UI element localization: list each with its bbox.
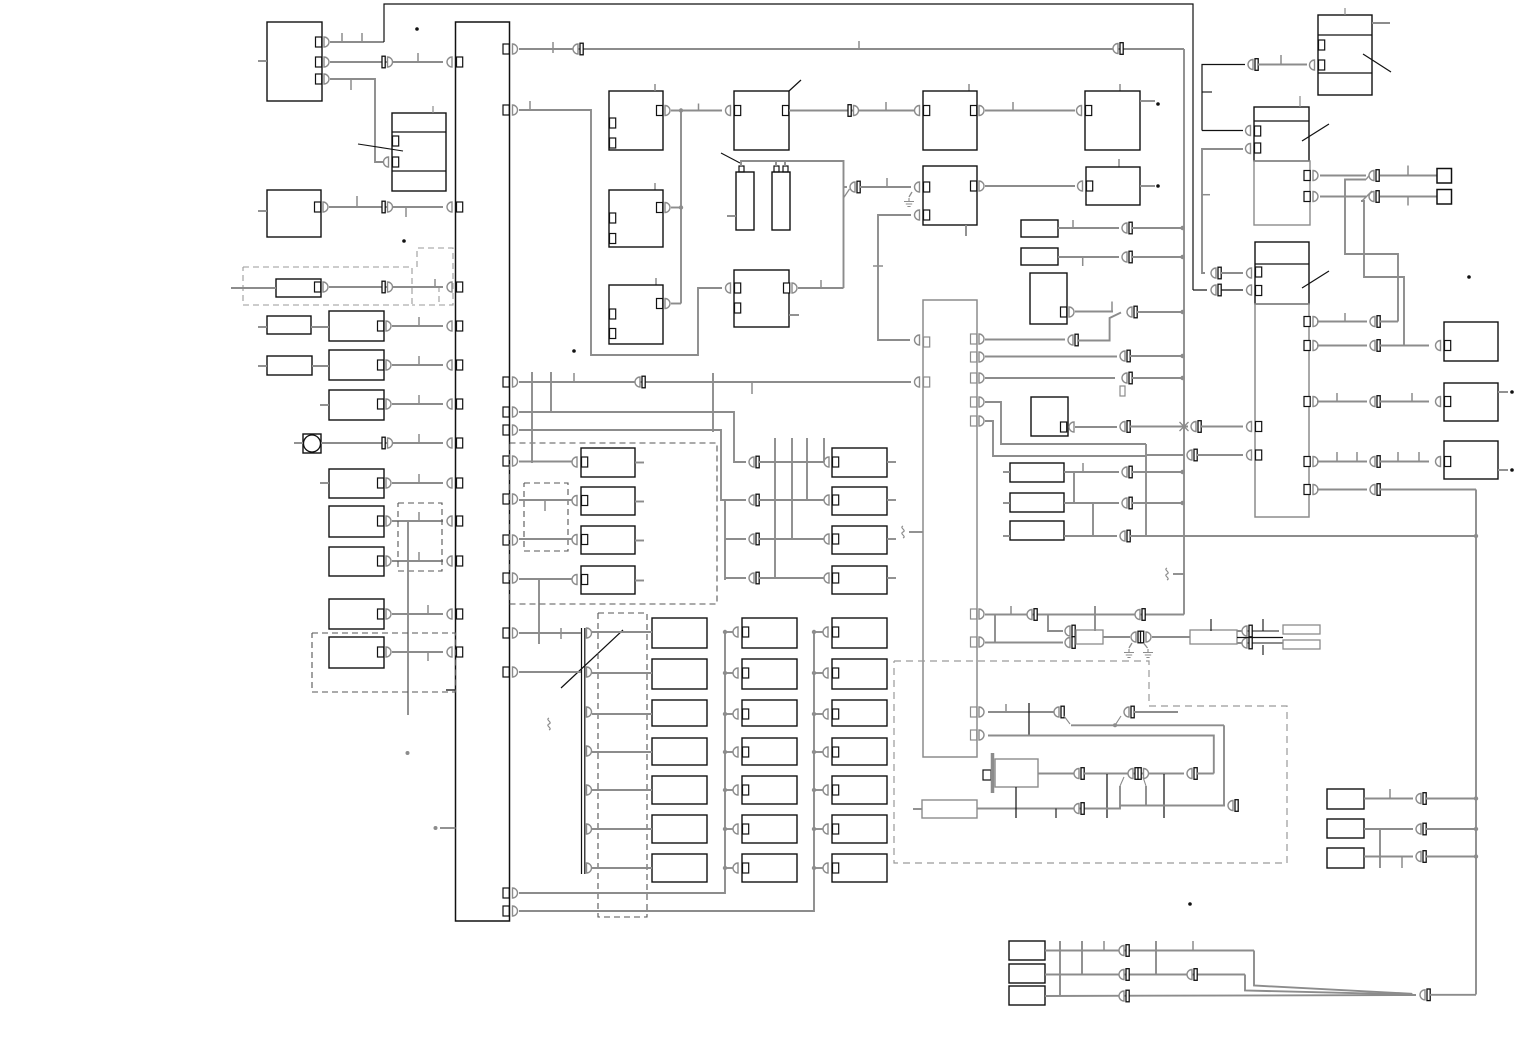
wire trunk branch y290 — [1193, 289, 1207, 291]
component U3 — [1444, 441, 1498, 479]
wire to M1 — [759, 461, 826, 463]
wire y773 — [1084, 773, 1184, 775]
wire y725 drop — [1223, 725, 1225, 805]
tick — [858, 41, 860, 49]
component C1-7 — [652, 854, 707, 882]
bus X1 left pin y561 — [457, 556, 463, 566]
wire to M3 — [759, 538, 826, 540]
wire to C2-2 — [725, 672, 734, 674]
junction dot — [679, 108, 683, 112]
S lower gray tall — [1255, 304, 1309, 517]
wire strip to C1-2 — [592, 672, 652, 674]
tick — [1397, 452, 1399, 461]
inline connector — [382, 281, 385, 293]
R top tick — [1299, 96, 1301, 107]
C2-1 pin — [743, 627, 749, 637]
junction dot — [1474, 854, 1478, 858]
pair tail 3 — [1120, 777, 1124, 786]
X3 right pin y402 — [971, 397, 977, 407]
inline connector — [1187, 769, 1192, 779]
inline connector — [1369, 192, 1374, 202]
junction dot — [1113, 723, 1117, 727]
component PWR1 — [1076, 630, 1103, 644]
wire strip to C1-1 — [592, 631, 652, 633]
inline connector — [1122, 498, 1127, 508]
X3 right pin y378 — [971, 373, 977, 383]
A pin2 — [316, 57, 322, 67]
R5 pin — [378, 478, 384, 488]
S-bend riser 1 — [1345, 180, 1398, 322]
J1 left stub — [727, 215, 736, 217]
wire L to J vertical — [798, 287, 844, 289]
junction dot — [723, 827, 727, 831]
I top tick — [654, 183, 656, 190]
N pin L — [1086, 106, 1092, 116]
wire bus633 to strip — [519, 632, 581, 634]
wire X3-402 jog — [985, 402, 1146, 444]
G diagonal — [789, 80, 801, 91]
C3-4 pin — [833, 747, 839, 757]
link vertical x551 — [550, 372, 552, 412]
tick — [1202, 194, 1210, 196]
component J2 — [772, 172, 790, 230]
junction dot — [434, 826, 438, 830]
wire J tops — [741, 161, 785, 166]
I pin L2 — [610, 234, 616, 244]
H pin L — [924, 106, 930, 116]
wire A pin3 to B — [330, 79, 383, 162]
tick — [1262, 619, 1264, 631]
C pin — [315, 202, 321, 212]
R1 link wire — [311, 326, 329, 328]
wire D1 to bus — [329, 286, 443, 288]
component S upper — [1255, 242, 1309, 304]
tick — [418, 434, 420, 443]
black crossing 3 — [1163, 774, 1165, 818]
wire cont — [1130, 426, 1188, 428]
M4 pin — [833, 573, 839, 583]
pair tail 2 — [1115, 716, 1121, 725]
wire cont — [1132, 502, 1184, 504]
R pin1 — [1255, 126, 1261, 136]
stray dot — [402, 239, 406, 243]
tick — [529, 101, 531, 110]
squiggle break mark — [548, 718, 550, 730]
inline connector — [1122, 373, 1127, 383]
Sg pin y402 — [1304, 397, 1310, 407]
stray dot — [1467, 275, 1471, 279]
Sg pin y490 — [1304, 485, 1310, 495]
link vertical x532 — [531, 372, 533, 463]
L pin L2 — [735, 303, 741, 313]
strip X2 pin y712 — [587, 707, 592, 717]
C2-5 pin — [743, 785, 749, 795]
component PWR2 — [1190, 630, 1237, 644]
U3 pin — [1445, 457, 1451, 467]
component S2 — [581, 487, 635, 515]
wire y805 — [1120, 805, 1225, 807]
wire to PWR2 — [1152, 636, 1190, 638]
wire y455 to S — [1146, 454, 1184, 456]
tick — [1072, 220, 1074, 228]
Sg pin y322 — [1304, 317, 1310, 327]
junction dot — [1474, 796, 1478, 800]
A pin1 — [316, 37, 322, 47]
tick — [698, 104, 700, 111]
inline connector — [1416, 824, 1421, 834]
component C3-4 — [832, 738, 887, 765]
tick — [1401, 857, 1403, 868]
component C2-5 — [742, 776, 797, 804]
component A (top-left ECU) — [267, 22, 322, 101]
component W3 — [1009, 986, 1045, 1005]
ground stub R — [1144, 643, 1148, 648]
stray dot — [415, 27, 419, 31]
mid vertical F-I-I3 — [680, 111, 682, 304]
bus X1 left pin y614 — [457, 609, 463, 619]
M3 pin — [833, 534, 839, 544]
junction dot — [812, 827, 816, 831]
component C — [267, 190, 321, 237]
bus X1 left pin y483 — [457, 478, 463, 488]
component M3 — [832, 526, 887, 554]
tick — [1262, 645, 1264, 655]
G pin R — [783, 106, 789, 116]
inline connector — [1135, 610, 1140, 620]
junction dot — [812, 750, 816, 754]
wire cont — [1221, 289, 1243, 291]
wire to right trunk — [1380, 489, 1476, 491]
wire cont — [1426, 828, 1476, 830]
inline connector — [1370, 341, 1375, 351]
shield dashed box 5 — [524, 483, 568, 551]
wire to square — [1380, 175, 1437, 177]
stray dot — [1510, 390, 1514, 394]
squiggle break mark — [1166, 568, 1168, 580]
inline connector — [635, 377, 640, 387]
black link — [1237, 637, 1283, 639]
M1 left stub — [294, 442, 303, 444]
wire cont — [1258, 64, 1307, 66]
C2-3 pin — [743, 709, 749, 719]
R1 left stub — [258, 326, 267, 328]
tick — [427, 605, 429, 614]
R7 pin — [378, 556, 384, 566]
mating connector pair — [1128, 769, 1133, 779]
V2 left stub — [1003, 502, 1010, 504]
wire to C2-1 — [725, 631, 734, 633]
long wire bus49 to right — [519, 48, 1184, 50]
component O — [1086, 167, 1140, 205]
inline connector — [1065, 626, 1070, 636]
junction dot — [1180, 354, 1184, 358]
shield dashed box 6 — [598, 613, 647, 917]
C2-6 pin — [743, 824, 749, 834]
tick — [1407, 197, 1409, 206]
wire to square2 — [1380, 196, 1437, 198]
connector into U2 — [1436, 397, 1441, 407]
component C1-5 — [652, 776, 707, 804]
inline connector — [1065, 638, 1070, 648]
crossing vertical — [1094, 606, 1096, 631]
bus X1 right pin y412 — [503, 407, 509, 417]
shield 1 inner dash — [438, 286, 440, 305]
component S3 — [581, 526, 635, 554]
I3 top tick — [655, 278, 657, 285]
bus X1 left pin y443 — [457, 438, 463, 448]
black crossing 2 — [1106, 774, 1108, 818]
inline connector — [1120, 351, 1125, 361]
tick — [1336, 393, 1338, 401]
M1 pin — [833, 457, 839, 467]
R2 left stub — [258, 365, 267, 367]
component U2 — [1444, 383, 1498, 421]
wire Y1 — [1364, 798, 1413, 800]
tick — [427, 652, 429, 661]
L pin L1 — [735, 283, 741, 293]
inline connector — [1187, 970, 1192, 980]
inline connector — [1124, 707, 1129, 717]
wire bus to S2 — [519, 499, 573, 501]
wire V1 — [1064, 471, 1119, 473]
inline connector — [1370, 397, 1375, 407]
tick — [1210, 619, 1212, 631]
inline connector — [1068, 335, 1073, 345]
wire cont — [1078, 313, 1121, 341]
D1 left stub — [231, 287, 276, 289]
component B220 — [1021, 220, 1058, 237]
L pin R — [784, 283, 790, 293]
X3 right pin y712 — [971, 707, 977, 717]
bus X1 left pin y207 — [457, 202, 463, 212]
wire bus382 to tallbox — [519, 381, 911, 383]
component C2-3 — [742, 700, 797, 726]
inline connector — [1369, 171, 1374, 181]
wire R7 to bus — [392, 560, 443, 562]
C3-7 pin — [833, 863, 839, 873]
wire Sg402 — [1317, 401, 1367, 403]
wire I3 pin — [671, 303, 681, 305]
tick — [1411, 393, 1413, 401]
wire X3-339 to P junction — [985, 339, 1065, 341]
wire V3 long y536 — [1064, 535, 1117, 537]
component M2 — [832, 487, 887, 515]
O top tick — [1118, 159, 1120, 167]
B pin2 — [393, 157, 399, 167]
inline connector — [1122, 467, 1127, 477]
junction dot — [723, 750, 727, 754]
component C2-2 — [742, 659, 797, 689]
U3 right stub — [1498, 469, 1508, 471]
M1 right stub — [887, 461, 896, 463]
wire to C3-3 — [814, 713, 824, 715]
strip slash — [561, 630, 623, 688]
connector from K — [915, 210, 920, 220]
link vertical — [1092, 503, 1094, 536]
inline connector — [1248, 60, 1253, 70]
component R6 — [329, 506, 384, 537]
inline connector row3 — [749, 534, 754, 544]
wire PWR2 lower — [1237, 642, 1283, 644]
M4 right stub — [887, 577, 896, 579]
vertical wire from R6 row — [407, 521, 409, 715]
M2 pin — [833, 495, 839, 505]
connector into O — [1078, 181, 1083, 191]
bus X1 right pin y49 — [503, 44, 509, 54]
K pin L2 — [924, 210, 930, 220]
inline connector — [1211, 268, 1216, 278]
tick — [1407, 166, 1409, 176]
wire C to bus — [329, 206, 443, 208]
wire B220 — [1058, 227, 1119, 229]
wire V2 — [1064, 502, 1119, 504]
wire to C3-2 — [814, 672, 824, 674]
component U1 — [1444, 322, 1498, 361]
bus X1 right pin y499 — [503, 494, 509, 504]
bus X1 right pin y578 — [503, 573, 509, 583]
wire cont — [1426, 798, 1476, 800]
component RLY bar — [991, 753, 995, 793]
wire strip to C1-4 — [592, 751, 652, 753]
wire bus to S1 — [519, 461, 573, 463]
N top tick — [1119, 84, 1121, 91]
tick — [573, 373, 575, 382]
bus X1 left pin y287 — [457, 282, 463, 292]
component S4 — [581, 566, 635, 594]
wire R5 to bus — [392, 482, 443, 484]
component C3-5 — [832, 776, 887, 804]
wire to U1 — [1380, 345, 1429, 347]
bus X1 left pin y404 — [457, 399, 463, 409]
wire F to G — [671, 110, 722, 112]
X3 right pin y642 — [971, 637, 977, 647]
squiggle break mark — [902, 526, 904, 538]
inline connector — [1074, 769, 1079, 779]
X3 right pin y614 — [971, 609, 977, 619]
component P — [1030, 273, 1067, 324]
C2-4 pin — [743, 747, 749, 757]
wire T to S — [1075, 426, 1117, 428]
pin stub — [1120, 386, 1125, 396]
B slash — [358, 144, 403, 151]
terminal square — [1437, 169, 1452, 184]
R3 pin — [378, 399, 384, 409]
component Y3 — [1327, 848, 1364, 868]
X3 right pin y357 — [971, 352, 977, 362]
bus left stub — [440, 827, 456, 829]
inline connector — [1416, 794, 1421, 804]
bus X1 right pin y430 — [503, 425, 509, 435]
wire A pin2 to bus — [330, 61, 443, 63]
component K — [923, 166, 977, 225]
wire PWR1 out — [1103, 636, 1130, 638]
connector into U1 — [1436, 341, 1441, 351]
stray dot — [1188, 902, 1192, 906]
vertical branch — [538, 578, 540, 644]
wire K lower to tallbox — [878, 215, 911, 340]
shield 1 notch — [412, 248, 453, 305]
stray dot — [1156, 184, 1160, 188]
component J1 — [736, 172, 754, 230]
inline connector — [1119, 970, 1124, 980]
connector into R — [1246, 126, 1251, 136]
wire to C2-4 — [725, 751, 734, 753]
tick — [1082, 257, 1084, 266]
tick — [1202, 91, 1212, 93]
component R5 — [329, 469, 384, 498]
inline connector — [573, 44, 578, 54]
junction dot — [1180, 470, 1184, 474]
wire to C3-6 — [814, 828, 824, 830]
stray dot — [1510, 468, 1514, 472]
wire G to H — [789, 110, 919, 112]
Sg left pin y455 — [1256, 450, 1262, 460]
wire to riser — [1380, 321, 1398, 323]
ground stub L — [1129, 643, 1132, 648]
C3-6 pin — [833, 824, 839, 834]
Rg pin2 — [1304, 192, 1310, 202]
component C3-6 — [832, 815, 887, 843]
inline connector — [848, 105, 851, 117]
bus X1 right pin y893 — [503, 888, 509, 898]
wire y725 — [1071, 724, 1224, 726]
S1 pin — [582, 457, 588, 467]
wire cont — [1132, 377, 1184, 379]
component R2 — [267, 356, 312, 375]
junction dot — [812, 788, 816, 792]
stray dot — [1156, 102, 1160, 106]
X3 right pin y421 — [971, 416, 977, 426]
bus X1 left pin y652 — [457, 647, 463, 657]
wire H to N — [985, 110, 1075, 112]
tick — [434, 279, 436, 287]
wire bus to S4 — [519, 578, 573, 580]
component Q — [1318, 15, 1372, 95]
component F — [609, 91, 663, 150]
wire strip to C1-3 — [592, 713, 652, 715]
component V2 — [1010, 493, 1064, 512]
Q internal line2 — [1318, 72, 1372, 74]
tick — [886, 178, 888, 187]
wire row578 — [725, 577, 746, 579]
component R2b — [329, 350, 384, 380]
wire R9 to bus — [392, 651, 443, 653]
component C2-4 — [742, 738, 797, 765]
branch vertical x725 — [724, 500, 726, 580]
tick — [418, 512, 420, 521]
tail vertical R — [1145, 786, 1147, 806]
terminal square2 — [1437, 190, 1452, 205]
component Y2 — [1327, 819, 1364, 838]
component FUSE1 — [1283, 625, 1320, 634]
S2 right stub — [635, 501, 644, 503]
strip X2 pin y829 — [587, 824, 592, 834]
tick — [1082, 463, 1084, 472]
connector into U3 — [1436, 457, 1441, 467]
component B relay block — [392, 113, 446, 191]
wire I pin — [671, 207, 681, 209]
component W1 — [1009, 941, 1045, 960]
tick — [544, 500, 546, 511]
junction dot — [1180, 501, 1184, 505]
connector X3 tall center box — [923, 300, 977, 757]
wire K to O — [985, 185, 1075, 187]
inline connector — [1242, 638, 1247, 648]
inline connector — [1242, 626, 1247, 636]
R pin2 — [1255, 143, 1261, 153]
wire to C2-3 — [725, 713, 734, 715]
inline connector — [1119, 991, 1124, 1001]
